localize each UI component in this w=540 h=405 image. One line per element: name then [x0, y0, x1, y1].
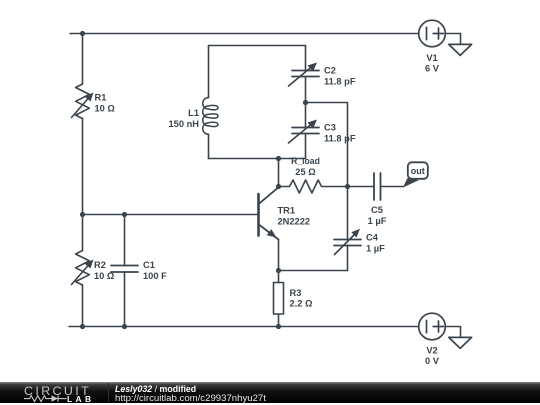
svg-text:11.8 pF: 11.8 pF [324, 134, 356, 144]
svg-text:C2: C2 [324, 66, 336, 76]
svg-text:6 V: 6 V [425, 64, 440, 74]
capacitor C1 [111, 266, 138, 273]
svg-text:2.2 Ω: 2.2 Ω [290, 299, 314, 309]
svg-text:100 F: 100 F [143, 271, 167, 281]
svg-text:out: out [411, 166, 425, 176]
wire left rail lower (R2 to bottom) [82, 285, 84, 327]
node bottom-left junction [80, 324, 85, 329]
V1 minus bar [426, 27, 428, 39]
resistor R2 (potentiometer zigzag) [76, 251, 90, 286]
wire left rail middle (R1 to R2) [82, 119, 84, 251]
wire C4 top lead [347, 187, 349, 240]
wire C3 bottom lead [305, 134, 307, 159]
wire bottom rail [69, 326, 419, 328]
svg-text:TR1: TR1 [278, 206, 296, 216]
svg-text:C1: C1 [143, 260, 155, 270]
svg-text:V1: V1 [426, 53, 437, 63]
CircuitLab logo schematic line [24, 395, 67, 401]
wire tank bottom [209, 158, 306, 160]
wire top rail [70, 33, 419, 35]
wire R3 bottom lead [278, 314, 280, 327]
svg-text:C5: C5 [371, 205, 383, 215]
wire C5 right lead to out [381, 186, 404, 188]
svg-text:R3: R3 [290, 288, 302, 298]
wire C4 bottom lead [347, 246, 349, 271]
voltage source V1 circle [419, 20, 446, 47]
wire C2 top lead [305, 46, 307, 71]
transistor TR1 base bar [257, 194, 260, 236]
svg-text:R1: R1 [95, 93, 107, 103]
node collector junction [276, 184, 281, 189]
wire C5 left lead [348, 186, 375, 188]
svg-text:25 Ω: 25 Ω [295, 167, 316, 177]
transistor TR1 emitter line with arrow [259, 225, 279, 240]
svg-text:V2: V2 [426, 346, 437, 356]
wire L1 bottom lead [208, 134, 210, 158]
out flag [403, 162, 428, 187]
svg-text:LAB: LAB [67, 394, 94, 404]
svg-text:R_load: R_load [291, 156, 320, 166]
wire emitter row to C4 branch [279, 270, 348, 272]
node C1 bottom junction [122, 324, 127, 329]
resistor R_load zigzag [279, 180, 348, 193]
node R3 bottom junction [276, 324, 281, 329]
node C1 top junction [122, 212, 127, 217]
capacitor C5 [374, 173, 381, 200]
node C2-C3 junction [303, 100, 308, 105]
inductor L1 [203, 98, 218, 135]
transistor TR1 collector line [259, 187, 279, 204]
ground symbol at V1 [449, 44, 472, 55]
capacitor C3 (variable) [292, 128, 319, 134]
potentiometer arrow R1 [72, 93, 94, 118]
svg-text:0 V: 0 V [425, 356, 440, 366]
svg-text:http://circuitlab.com/c29937nh: http://circuitlab.com/c29937nhyu27t [115, 393, 266, 404]
node top-left junction [80, 31, 85, 36]
wire tank top [209, 45, 306, 47]
wire C3 top lead [305, 103, 307, 128]
wire V2 to ground [445, 327, 460, 338]
wire left rail upper (top to R1) [82, 34, 84, 85]
node emitter junction [276, 268, 281, 273]
node base-left junction [80, 212, 85, 217]
node R_load right junction [345, 184, 350, 189]
resistor R3 (box style) [274, 283, 284, 315]
svg-text:150 nH: 150 nH [169, 119, 200, 129]
V1 plus sign [433, 28, 443, 39]
wire C2 to node [305, 77, 307, 103]
svg-text:10 Ω: 10 Ω [95, 104, 116, 114]
wire L1 top lead [208, 46, 210, 98]
V2 plus sign [433, 321, 443, 332]
svg-text:10 Ω: 10 Ω [94, 271, 115, 281]
svg-text:R2: R2 [94, 260, 106, 270]
svg-text:1 µF: 1 µF [366, 244, 385, 254]
svg-text:11.8 pF: 11.8 pF [324, 77, 356, 87]
svg-text:2N2222: 2N2222 [278, 217, 311, 227]
wire C1 top lead [124, 215, 126, 266]
voltage source V2 circle [419, 313, 446, 340]
potentiometer arrow R2 [72, 260, 94, 285]
arrow of variable capacitor C3 [289, 120, 318, 144]
arrow of variable capacitor C2 [289, 63, 318, 87]
V2 minus bar [426, 320, 428, 332]
wire emitter down [278, 240, 280, 271]
svg-text:L1: L1 [188, 108, 199, 118]
wire V1 to ground [445, 34, 460, 45]
wire C1 bottom lead [124, 272, 126, 327]
resistor R1 (potentiometer zigzag) [76, 84, 90, 119]
arrow of variable capacitor C4 [335, 229, 361, 255]
svg-text:C3: C3 [324, 123, 336, 133]
svg-text:C4: C4 [366, 233, 379, 243]
footer divider [108, 383, 110, 402]
capacitor C2 (variable) [292, 71, 319, 77]
wire node to right branch [306, 103, 348, 187]
wire collector stub [278, 159, 280, 187]
capacitor C4 (variable) [334, 240, 361, 246]
wire base rail [83, 214, 258, 216]
ground symbol at V2 [449, 337, 472, 348]
node tank bottom junction [276, 156, 281, 161]
footer bar [0, 382, 540, 404]
wire R3 top lead [278, 271, 280, 283]
svg-text:1 µF: 1 µF [368, 216, 387, 226]
